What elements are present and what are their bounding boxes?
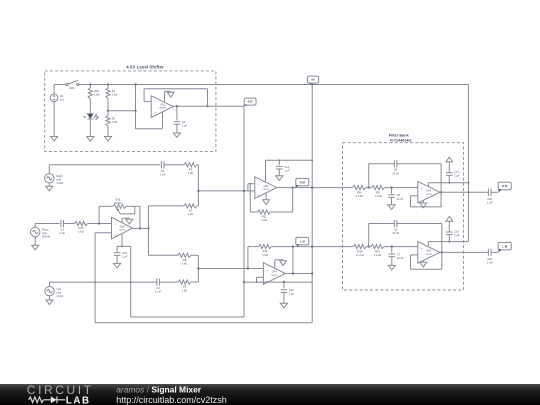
wire C7 bottom leg <box>391 257 393 266</box>
svg-text:1.1 kΩ: 1.1 kΩ <box>374 253 382 257</box>
node OA6 output feedback <box>292 186 294 188</box>
svg-text:C5: C5 <box>394 228 398 232</box>
svg-text:1.1 kΩ: 1.1 kΩ <box>374 194 382 198</box>
power arrow OA2 V+ <box>122 218 133 224</box>
svg-text:C17: C17 <box>454 170 459 174</box>
wire noninverting feed bottom <box>136 128 163 130</box>
ground below D1 <box>87 137 94 142</box>
node C8 tap <box>390 186 392 188</box>
wire Micro source to ground <box>34 237 36 246</box>
ground below Right source <box>46 186 53 191</box>
svg-text:500 Hz: 500 Hz <box>42 235 51 239</box>
wire R7 to summing leg <box>197 205 198 207</box>
wire OA2 V- stub <box>121 234 123 246</box>
svg-text:1 kΩ: 1 kΩ <box>112 120 117 124</box>
svg-text:1 kΩ: 1 kΩ <box>182 288 187 292</box>
wire C2 to R4 <box>159 281 178 283</box>
svg-text:R16: R16 <box>79 226 84 230</box>
svg-text:LM741: LM741 <box>426 254 433 256</box>
svg-text:10 nF: 10 nF <box>392 231 399 235</box>
node OA4 feedback junction <box>292 245 294 247</box>
wire R15 top right <box>126 205 140 207</box>
node C17 tap <box>448 182 450 184</box>
wire C8 bottom leg <box>391 197 393 204</box>
op-amp OA3 <box>418 181 440 203</box>
resistor R21 <box>372 186 385 199</box>
op-amp OA5 <box>418 242 440 264</box>
wire R8 to summing leg <box>191 254 198 256</box>
wire OA6 output <box>277 187 312 189</box>
wire divider middle <box>107 99 109 116</box>
svg-text:50 kΩ: 50 kΩ <box>115 201 122 205</box>
ground below R2 <box>104 137 111 142</box>
voltage source Micro sine <box>31 227 52 238</box>
wire C6 lead left <box>369 163 395 165</box>
wire Left channel <box>50 281 157 283</box>
resistor R11 <box>258 210 271 222</box>
wire R3 to summing leg <box>197 164 198 166</box>
wire R20 to R21 <box>366 187 372 189</box>
node L-M wire at 9V rail <box>311 245 313 247</box>
wire OA3 V+ stub <box>427 183 429 187</box>
ground below C12 <box>276 176 283 181</box>
svg-text:+: + <box>421 247 423 251</box>
wire Right source up <box>48 165 50 174</box>
capacitor C3 <box>59 220 65 235</box>
capacitor C7 <box>389 253 404 261</box>
node OA3 output feedback <box>440 191 442 193</box>
svg-text:R12: R12 <box>263 249 268 253</box>
svg-text:1 µF: 1 µF <box>454 233 460 237</box>
node OA6 output at 9V rail <box>311 186 313 188</box>
svg-text:−: − <box>266 269 268 273</box>
wire Left source up <box>49 282 51 286</box>
svg-text:9V: 9V <box>311 78 314 82</box>
wire R2 to ground <box>107 127 109 137</box>
wire R11 right leg <box>292 188 294 212</box>
wire OA2 supply leg down <box>130 246 132 317</box>
wire OA2 bias leg down <box>94 233 96 323</box>
svg-text:OA5: OA5 <box>426 250 431 253</box>
svg-text:1.1 kΩ: 1.1 kΩ <box>356 253 364 257</box>
svg-text:−: − <box>421 196 423 200</box>
wire Right channel <box>49 164 160 166</box>
wire 9V vertical rail <box>311 85 313 323</box>
wire R4 to summing leg <box>191 281 198 283</box>
node C10 tap <box>448 241 450 243</box>
wire OA2 output <box>133 227 149 229</box>
wire OA2 output vertical branch <box>148 206 150 255</box>
svg-text:Micro: Micro <box>42 228 49 232</box>
svg-text:OA1: OA1 <box>160 103 165 106</box>
net flag L-M at OA4 output <box>296 237 309 246</box>
svg-text:OA2: OA2 <box>120 225 125 228</box>
svg-text:LAB: LAB <box>66 395 91 405</box>
wire C6 right leg to output <box>440 164 442 193</box>
svg-text:LM741: LM741 <box>271 275 278 277</box>
wire C5 lead left <box>369 223 395 225</box>
svg-text:SW1: SW1 <box>69 86 75 90</box>
svg-text:−: − <box>421 256 423 260</box>
resistor R12 <box>259 245 272 257</box>
LED D1 <box>83 114 98 120</box>
capacitor C12 <box>276 165 290 173</box>
svg-text:1 kΩ: 1 kΩ <box>262 253 267 257</box>
wire 9V rail left segment <box>54 84 66 86</box>
svg-text:R23: R23 <box>94 89 99 93</box>
wire C12 bottom leg <box>278 169 280 176</box>
op-amp OA1 <box>151 96 173 118</box>
node OA2 V- junction <box>121 245 123 247</box>
wire OA5 output <box>440 251 489 253</box>
node 9V flag attach <box>311 83 313 85</box>
resistor R16 <box>75 221 88 233</box>
capacitor C17 <box>446 170 460 178</box>
wire Micro source up <box>34 224 36 228</box>
svg-text:http://circuitlab.com/cv2tzsh: http://circuitlab.com/cv2tzsh <box>116 395 227 405</box>
footer bar <box>0 384 540 405</box>
svg-text:Left: Left <box>56 287 61 291</box>
svg-text:C3: C3 <box>61 228 65 232</box>
node OA4 output branch <box>292 272 294 274</box>
wire OA1 feedback right leg <box>207 89 209 106</box>
ground below Micro source <box>32 245 39 250</box>
svg-text:C16: C16 <box>122 251 127 255</box>
svg-text:1 µF: 1 µF <box>182 124 188 128</box>
svg-text:LM741: LM741 <box>426 194 433 196</box>
svg-text:L-M: L-M <box>502 244 508 248</box>
net flag L-M output <box>498 242 511 252</box>
resistor R20 <box>353 186 366 199</box>
wire OA4 noninverting step down <box>256 277 258 282</box>
node bias crossing Left wire <box>94 281 96 283</box>
net flag R-M at OA6 output <box>295 178 309 187</box>
net flag 4.5V <box>244 98 256 106</box>
power arrow above C10 <box>446 216 453 221</box>
svg-text:C7: C7 <box>397 253 401 257</box>
wire Micro channel <box>35 223 59 225</box>
node C7 tap <box>391 245 393 247</box>
wire C5 lead right <box>397 223 442 225</box>
wire summing to OA6 <box>198 190 254 192</box>
net flag 9V <box>307 76 318 84</box>
svg-text:R19: R19 <box>375 249 380 253</box>
svg-text:1.1 kΩ: 1.1 kΩ <box>355 194 363 198</box>
power arrow OA5 V- <box>420 261 427 267</box>
node C6 tap <box>368 186 370 188</box>
resistor R1 <box>106 88 117 99</box>
power arrow OA4 V- <box>275 260 287 269</box>
svg-text:C10: C10 <box>454 229 459 233</box>
wire C3 to R16 <box>64 223 75 225</box>
svg-text:R8: R8 <box>183 258 187 262</box>
wire R23 to D1 <box>89 99 91 114</box>
svg-text:C12: C12 <box>284 165 289 169</box>
wire OA2 V- horizontal <box>117 245 131 247</box>
wire OA1 feedback left leg <box>143 89 145 102</box>
capacitor C13 <box>281 288 295 296</box>
wire summing leg vertical <box>197 165 199 206</box>
svg-text:L-M: L-M <box>300 239 306 243</box>
wire Right source to ground <box>48 183 50 186</box>
wire C10 bottom leg <box>448 235 450 242</box>
wire noninverting feed up stub <box>162 112 164 129</box>
node R11 left leg junction <box>249 183 251 185</box>
wire C5 right leg to output <box>441 224 443 253</box>
svg-text:C4: C4 <box>182 120 186 124</box>
svg-text:sine: sine <box>56 290 61 294</box>
wire D1 to ground <box>89 119 91 137</box>
node supply leg crossing Left wire <box>130 281 132 283</box>
resistor R3 <box>184 163 197 175</box>
capacitor C2 <box>155 279 161 294</box>
wire 4.5V vertical rail <box>243 106 245 317</box>
node OA3 output at right rail <box>468 191 470 193</box>
svg-text:1 kΩ: 1 kΩ <box>261 218 266 222</box>
wire OA3 feedback left leg <box>410 196 412 207</box>
wire C17 top leg <box>448 162 450 173</box>
wire 9V right rail down <box>468 85 470 242</box>
svg-text:sine: sine <box>42 231 47 235</box>
potentiometer R15 <box>113 197 126 213</box>
wire R1 top stub <box>107 85 109 89</box>
wire C6 lead right <box>397 163 441 165</box>
node bias at 4.5V rail <box>243 281 245 283</box>
wire R19 to OA5 <box>384 246 418 248</box>
wire C12 top leg <box>278 160 280 165</box>
svg-text:1 kHz: 1 kHz <box>56 181 63 185</box>
wire R15 output leg <box>139 206 141 228</box>
wire OA6 supply <box>266 159 313 161</box>
wire OA5 V+ stub <box>427 242 429 246</box>
node R12 left leg junction <box>247 267 249 269</box>
svg-text:10 nF: 10 nF <box>397 197 404 201</box>
wire OA3 inverting stub <box>411 195 418 197</box>
capacitor C4 <box>174 120 188 128</box>
wire OA1 feedback top <box>144 88 207 90</box>
wire OA5 feedback bottom <box>411 268 442 270</box>
node supply at 9V rail <box>311 159 313 161</box>
wire C5 left leg <box>368 224 370 247</box>
node C12 tap <box>278 159 280 161</box>
svg-text:1 mF: 1 mF <box>160 172 166 176</box>
svg-text:1 mF: 1 mF <box>487 261 493 265</box>
wire OA1 output <box>173 105 244 107</box>
resistor R7 <box>184 204 197 216</box>
svg-text:C2: C2 <box>156 286 160 290</box>
wire OA4 output <box>285 273 312 275</box>
svg-text:R20: R20 <box>357 190 362 194</box>
svg-text:4.5V Level Shifter: 4.5V Level Shifter <box>126 64 164 69</box>
svg-text:1 kHz: 1 kHz <box>56 294 63 298</box>
wire V1 top <box>53 85 55 94</box>
svg-text:4.5V: 4.5V <box>248 101 253 104</box>
svg-text:LM741: LM741 <box>119 230 126 232</box>
svg-text:−: − <box>154 100 156 104</box>
wire OA6 V+ stub <box>265 160 267 182</box>
svg-text:−: − <box>258 183 260 187</box>
wire summing to OA4 <box>198 268 263 270</box>
svg-text:OA4: OA4 <box>272 271 277 274</box>
svg-text:1 kΩ: 1 kΩ <box>112 92 117 96</box>
svg-text:LM741: LM741 <box>263 189 270 191</box>
svg-text:LMV321: LMV321 <box>159 108 167 110</box>
wire 9V rail main <box>79 84 469 86</box>
wire R11 lead right <box>271 211 293 213</box>
svg-text:1 µF: 1 µF <box>284 168 290 172</box>
capacitor C5 <box>392 220 399 235</box>
wire R21 to OA3 <box>385 187 418 189</box>
op-amp OA2 <box>112 217 133 239</box>
svg-text:R-M: R-M <box>502 184 508 188</box>
node summing R channel <box>197 190 199 192</box>
wire 4.5V bias under OA4 <box>244 281 312 283</box>
wire C17 bottom leg <box>448 175 450 182</box>
wire OA6 inverting step <box>248 184 255 191</box>
wire C26 to flag <box>491 251 498 253</box>
node opamp feed <box>134 110 136 112</box>
power arrow above C17 <box>446 157 453 162</box>
svg-text:C20: C20 <box>487 197 492 201</box>
capacitor C6 <box>392 160 399 175</box>
svg-text:R1: R1 <box>112 89 116 93</box>
wire L summing leg vertical <box>197 255 199 282</box>
wire noninverting feed down <box>135 85 137 129</box>
wire V1 to ground <box>53 102 55 137</box>
node summing L channel <box>197 267 199 269</box>
wire OA3 output <box>440 191 489 193</box>
svg-text:D1: D1 <box>83 115 87 119</box>
wire OA2 noninverting input <box>95 232 111 234</box>
wire divider tap to opamp feed <box>108 110 136 112</box>
resistor R4 <box>178 280 191 292</box>
svg-text:R3: R3 <box>189 167 193 171</box>
svg-text:OA3: OA3 <box>426 189 431 192</box>
node OA5 output feedback <box>441 251 443 253</box>
svg-text:+: + <box>154 111 156 115</box>
wire C7 top leg <box>391 247 393 253</box>
node C13 tap <box>283 281 285 283</box>
svg-text:aramos / Signal Mixer: aramos / Signal Mixer <box>116 385 202 395</box>
node C4 tap <box>176 105 178 107</box>
wire C6 left leg <box>368 164 370 188</box>
wire bottom rail 2 <box>95 322 312 324</box>
svg-text:1 kΩ: 1 kΩ <box>188 171 193 175</box>
svg-text:R7: R7 <box>189 209 193 213</box>
svg-text:C13: C13 <box>289 288 294 292</box>
svg-text:+: + <box>421 187 423 191</box>
wire C16 top leg <box>116 246 118 251</box>
wire C20 to flag <box>491 191 498 193</box>
wire OA3 feedback bottom <box>411 206 442 208</box>
node R23 top <box>89 83 91 85</box>
dashed enclosure 4.5V Level Shifter <box>45 71 216 152</box>
wire C10 top leg <box>448 221 450 232</box>
node OA4 output at 9V rail <box>311 272 313 274</box>
switch SW1 <box>66 80 79 90</box>
svg-text:1 mF: 1 mF <box>487 201 493 205</box>
svg-text:R15: R15 <box>116 197 121 201</box>
wire C4 top leg <box>176 106 178 120</box>
capacitor C20 <box>487 189 493 205</box>
wire Left source to ground <box>49 296 51 300</box>
wire C13 top leg <box>283 282 285 288</box>
wire filter L input <box>312 246 353 248</box>
wire R12 left leg <box>247 247 249 269</box>
node OA2 output branch <box>147 227 149 229</box>
resistor R8 <box>178 253 191 265</box>
svg-text:C26: C26 <box>487 257 492 261</box>
capacitor C16 <box>114 251 128 259</box>
wire OA3 supply <box>428 182 468 184</box>
svg-text:+: + <box>258 193 260 197</box>
svg-text:R21: R21 <box>376 190 381 194</box>
svg-text:R11: R11 <box>262 215 267 219</box>
ground below C13 <box>280 303 287 308</box>
svg-text:1 kΩ: 1 kΩ <box>78 230 83 234</box>
resistor R18 <box>353 245 366 258</box>
capacitor C26 <box>487 249 493 265</box>
node level shifter feed <box>134 83 136 85</box>
resistor R2 <box>106 116 117 127</box>
wire OA4 output up leg <box>292 247 294 274</box>
ground below C16 <box>114 263 121 268</box>
wire OA1 inverting stub <box>144 100 151 102</box>
node 4.5V rail at OA6 input (lower) <box>243 190 245 192</box>
wire R11 left leg <box>249 184 251 212</box>
svg-text:10 nF: 10 nF <box>392 171 399 175</box>
ground below C8 <box>388 205 395 210</box>
voltage source V1 <box>50 94 64 102</box>
svg-text:1 mF: 1 mF <box>59 231 65 235</box>
node divider tap <box>107 110 109 112</box>
wire R15 left leg <box>98 206 100 223</box>
power arrow OA6 V- <box>263 193 270 205</box>
svg-text:+: + <box>266 279 268 283</box>
wire OA5 supply <box>428 241 468 243</box>
dashed enclosure Filter Bank <box>343 143 464 290</box>
svg-text:R-M: R-M <box>300 180 306 184</box>
svg-text:C6: C6 <box>394 168 398 172</box>
node 4.5V rail at OA6 input <box>243 190 245 192</box>
svg-text:+: + <box>114 234 116 238</box>
net flag R-M output <box>498 182 511 192</box>
wire filter R input <box>312 187 353 189</box>
svg-text:1 kΩ: 1 kΩ <box>182 262 187 266</box>
svg-text:1 µF: 1 µF <box>289 292 295 296</box>
wire R15 wiper right leg <box>134 206 136 214</box>
wire C13 bottom leg <box>283 292 285 303</box>
ground below C4 <box>173 133 180 138</box>
logo schematic line resistor and diode <box>29 396 65 403</box>
svg-text:R2: R2 <box>112 116 116 120</box>
wire R15 wiper bottom <box>120 213 135 215</box>
wire OA5 feedback right leg <box>441 252 443 269</box>
wire R15 top left <box>99 205 113 207</box>
op-amp OA4 <box>263 263 285 285</box>
node R15 leg to output <box>139 227 141 229</box>
power arrow OA1 V- <box>165 91 175 102</box>
wire R16 to OA2 inverting input <box>88 223 112 225</box>
svg-text:1 kΩ: 1 kΩ <box>94 92 99 96</box>
power arrow OA3 V- <box>420 200 427 207</box>
wire OA3 feedback right leg <box>440 192 442 207</box>
wire C4 bottom leg <box>176 124 178 133</box>
voltage source Left sine <box>45 287 64 298</box>
voltage source Right sine <box>45 174 64 185</box>
svg-text:1 kΩ: 1 kΩ <box>188 212 193 216</box>
svg-text:OA6: OA6 <box>263 185 268 188</box>
